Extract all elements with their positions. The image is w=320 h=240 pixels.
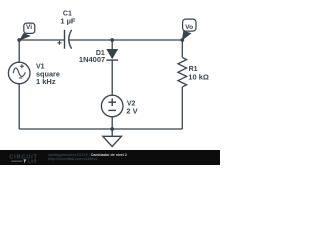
svg-text:1N4007: 1N4007	[79, 55, 105, 64]
label V1	[36, 64, 45, 71]
value label 1 kHz	[36, 77, 56, 86]
svg-text:1 µF: 1 µF	[60, 17, 76, 26]
watermark text line 1	[48, 153, 127, 157]
wire diode branch upper (top rail junction to D1 anode)	[111, 40, 113, 49]
watermark bar	[0, 150, 220, 165]
watermark text line 2	[48, 157, 98, 161]
svg-text:1 kHz: 1 kHz	[36, 77, 56, 86]
svg-text:LAB: LAB	[28, 159, 37, 164]
label D1	[96, 50, 105, 57]
wire right branch lower (R1 bottom to bottom rail)	[181, 87, 183, 129]
svg-text:Vi: Vi	[26, 24, 32, 31]
CircuitLab logo	[9, 155, 38, 164]
resistor R1	[178, 58, 187, 87]
node Vo	[180, 19, 196, 42]
svg-text:http://circuitlab.com/c629bs2: http://circuitlab.com/c629bs2	[48, 157, 98, 161]
value label 2 V	[126, 107, 137, 116]
capacitor C1	[58, 30, 72, 49]
label R1	[189, 66, 198, 73]
value label 1N4007	[79, 55, 105, 64]
wire diode branch lower (D1 cathode to V2 top)	[111, 60, 113, 95]
wire bottom rail	[19, 128, 182, 130]
node junction dot on top rail at D1	[110, 38, 114, 42]
value label 1 µF	[60, 17, 76, 26]
wire left branch upper (node Vi down to V1 top)	[18, 40, 20, 62]
svg-text:2 V: 2 V	[126, 107, 137, 116]
ground	[103, 129, 122, 147]
value label square	[36, 69, 60, 78]
svg-text:10 kΩ: 10 kΩ	[188, 72, 209, 81]
svg-text:Vo: Vo	[185, 24, 193, 31]
node junction dot on bottom rail at V2/ground	[110, 127, 114, 131]
wire top rail left (node Vi to C1 left plate)	[19, 39, 64, 41]
wire left branch lower (V1 bottom to bottom rail)	[18, 84, 20, 129]
voltage source V1	[8, 62, 30, 84]
label C1	[63, 11, 72, 18]
voltage source V2	[101, 95, 123, 117]
diode D1	[106, 49, 118, 60]
value label 10 kΩ	[188, 72, 209, 81]
wire right branch upper (node Vo to R1 top)	[181, 40, 183, 58]
wire V2 bottom to bottom rail	[111, 117, 113, 129]
label V2	[127, 101, 136, 108]
wire top rail right (C1 to node Vo)	[69, 39, 182, 41]
node Vi	[17, 23, 34, 42]
